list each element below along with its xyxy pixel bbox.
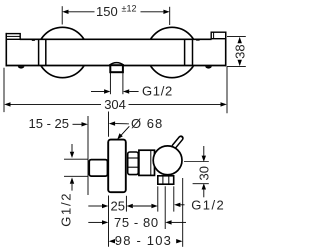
ext line V6 (knob front) (182, 178, 184, 247)
dim 150 extension line right (169, 7, 171, 25)
knob circle left (thermostat handle, behind bar) (37, 27, 87, 77)
dim 304 extension line left (3, 68, 5, 112)
row1: dim 25 left arrow (88, 205, 102, 207)
knob lever stub (174, 138, 181, 146)
knob circle right (shut-off handle, behind bar) (147, 27, 197, 77)
svg-text:150: 150 (96, 4, 118, 19)
nipple top extension line (64, 158, 88, 160)
seam tick right (196, 39, 200, 41)
right cap inner line (213, 32, 215, 39)
svg-text:30: 30 (196, 166, 211, 180)
set screw bump left (18, 66, 25, 68)
row2: dim 75-80 left arrow (88, 221, 102, 223)
outlet nut dome (front view) (109, 63, 123, 66)
knob (side) (153, 146, 182, 175)
escutcheon disc (Ø68, side) (108, 140, 126, 193)
dia 68 leader line (120, 126, 130, 137)
svg-text:G1/2: G1/2 (142, 84, 173, 99)
outlet nut (side) (158, 176, 174, 184)
svg-text:G1/2: G1/2 (58, 192, 73, 227)
ext line V3 (outlet left) (157, 186, 159, 211)
G1/2 left dim upper arrow (71, 144, 73, 153)
wall extension line (87, 116, 89, 195)
valve body (139, 150, 155, 175)
bar right end edge (225, 32, 227, 67)
dim 15-25 right arrow (109, 121, 115, 125)
outlet nipple (front view) (110, 65, 123, 72)
dim 15-25 left arrow (73, 123, 82, 125)
G1/2 outlet-side right arrow (174, 203, 180, 207)
svg-text:98 - 103: 98 - 103 (115, 233, 172, 248)
dim 304 line + arrows (4, 102, 10, 106)
svg-text:38: 38 (232, 44, 247, 58)
ext line V1 (escutcheon rear) upper segment (108, 112, 110, 137)
dim 38 extension line bottom (227, 66, 246, 68)
ext line V2 (escutcheon front) (125, 196, 127, 212)
ext line V5 (outlet right) (173, 186, 175, 211)
bar bottom edge (6, 65, 227, 67)
outlet nut face lines (162, 176, 164, 184)
nipple bottom extension line (64, 175, 88, 177)
union nut face lines (128, 157, 138, 159)
dim 30 bottom arrow (202, 183, 206, 189)
svg-text:Ø 68: Ø 68 (131, 116, 163, 131)
left cap inner line (6, 35, 20, 37)
bar joint lines left (38, 40, 40, 66)
valve body seam (150, 150, 152, 175)
G1/2 left dim lower arrow (70, 177, 74, 183)
ext line V1 lower segment (108, 196, 110, 247)
row3: dim 98-103 left arrow (109, 239, 115, 243)
dim 150 line + arrows (62, 10, 68, 14)
bar body mask (6, 39, 227, 67)
svg-text:25: 25 (111, 199, 125, 214)
dim 150 extension line left (61, 6, 63, 24)
bar top edge (20, 38, 212, 40)
svg-text:G1/2: G1/2 (191, 197, 225, 212)
outlet extension line right (122, 73, 124, 95)
union nut (128, 152, 139, 175)
dim 30 bottom extension line (193, 183, 209, 185)
axis line (184, 161, 209, 163)
bar joint lines right (184, 40, 186, 66)
dim 38 arrows (238, 37, 242, 43)
svg-text:75 - 80: 75 - 80 (114, 215, 159, 230)
right end cap top (211, 32, 226, 39)
dim 25 right arrow (127, 204, 133, 208)
bar left end edge (5, 33, 7, 66)
left end cap top (6, 34, 20, 40)
ext line V4 (outlet centre) (164, 186, 166, 229)
wall nipple (G1/2 square) (89, 160, 107, 177)
outlet left arrow (151, 204, 157, 208)
dim 38 extension line top (227, 35, 246, 37)
svg-text:304: 304 (104, 97, 126, 112)
svg-text:15 - 25: 15 - 25 (29, 116, 69, 131)
dim 98-103 right arrow (176, 239, 182, 243)
G1/2 outlet dim left arrow (91, 91, 104, 93)
set screw bump right (205, 66, 212, 68)
dia 68 leader arrowhead (117, 133, 123, 139)
dim 304 extension line right (226, 66, 228, 113)
outlet extension line left (109, 73, 111, 95)
dim 75-80 right arrow (165, 220, 171, 224)
svg-text:±12: ±12 (122, 4, 137, 14)
seam tick left (32, 39, 35, 41)
G1/2 outlet dim right arrow (123, 89, 129, 93)
dim 30 top arrow (203, 146, 205, 156)
